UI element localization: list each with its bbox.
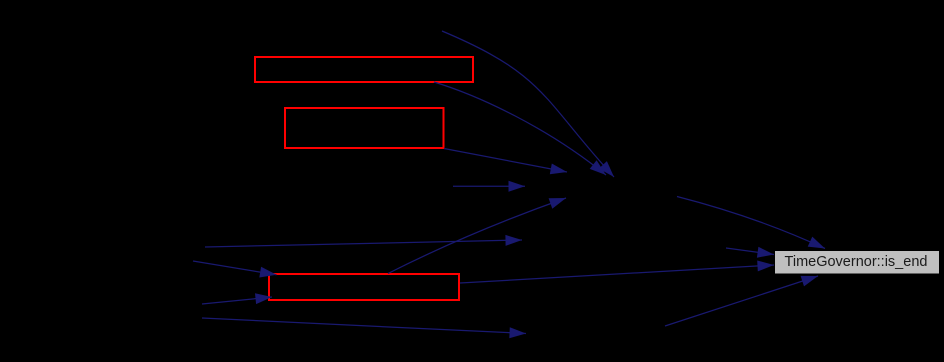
- wire edge G (into red box 3 top-left): [193, 261, 277, 278]
- node red box 1 (truncated caller): [255, 57, 473, 82]
- wire edge C (from red box 2 to center node): [444, 149, 567, 175]
- wire edge I (from red box 3 right to is_end): [460, 261, 774, 284]
- wire edge B (from red box 1 to center node): [434, 82, 606, 175]
- node red box 3 (truncated caller): [269, 274, 459, 300]
- wire edge M (short arrow into is_end left): [726, 247, 774, 258]
- wire edge K (bottom to is_end underside): [665, 276, 818, 326]
- node red box 2 (truncated caller, two-line): [285, 108, 444, 148]
- wire edge E (long arrow into mid node): [205, 235, 522, 247]
- svg-text:TimeGovernor::is_end: TimeGovernor::is_end: [785, 254, 928, 270]
- wire edge D (from red box 3 top to center node): [388, 198, 566, 274]
- wire edge F (short horizontal arrow): [453, 181, 525, 192]
- wire edge J (bottom arrow): [202, 318, 526, 338]
- wire edge A (top curve to center node): [442, 31, 614, 177]
- wire edge H (into red box 3 bottom-left): [202, 293, 272, 304]
- wire edge L (center node to is_end top): [677, 197, 825, 249]
- node TimeGovernor::is_end (current function, gray): [775, 251, 940, 275]
